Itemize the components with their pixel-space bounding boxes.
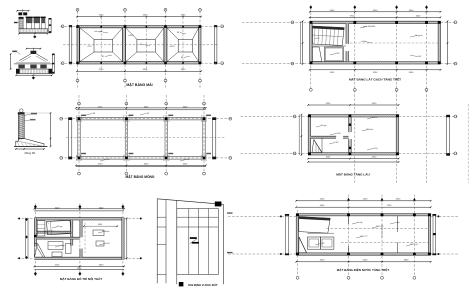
floor plan G interior horizontal wall: [311, 136, 336, 138]
roof plan C hip box 2: [126, 28, 164, 62]
floor plan D small room 1: [312, 47, 321, 62]
floor plan D small room 2: [324, 47, 343, 62]
grid line L4 vertical upper: [199, 11, 201, 88]
floor plan G bottom dimension: [308, 158, 398, 160]
svg-text:+0.00: +0.00: [360, 41, 366, 43]
foundation plan F top dimension: [76, 107, 206, 109]
detail B base slab: [16, 69, 52, 74]
floor plan D centre dashed: [350, 42, 438, 44]
svg-text:MẶT BẰNG ĐIỆN NƯỚC TẦNG TRỆT: MẶT BẰNG ĐIỆN NƯỚC TẦNG TRỆT: [337, 267, 390, 272]
floor plan G columns: [308, 114, 311, 117]
floor plan G left dimension bar: [300, 115, 302, 155]
svg-text:tủ: tủ: [51, 229, 53, 232]
foundation plan F left bar: [69, 119, 72, 158]
svg-text:MẶT BẰNG LÁT GẠCH TẦNG TRỆT: MẶT BẰNG LÁT GẠCH TẦNG TRỆT: [349, 77, 401, 82]
svg-text:M.B ĐỊNH Vị KHU ĐẤT: M.B ĐỊNH Vị KHU ĐẤT: [188, 282, 218, 287]
furniture plan H left dimension chain: [24, 218, 26, 259]
svg-text:đèn: đèn: [396, 221, 399, 224]
detail E hatched wall: [18, 113, 24, 139]
floor plan D right dimension bar: [447, 21, 449, 64]
detail B ridge peak: [31, 51, 37, 54]
services plan J outer wall band: [296, 214, 431, 216]
services plan J stair room: [299, 217, 330, 234]
detail A section mark: [33, 35, 36, 38]
svg-text:P.khách: P.khách: [103, 231, 110, 233]
grid line L2 vertical upper: [124, 11, 126, 88]
services plan J left dimension bar: [285, 214, 287, 255]
foundation plan F footing outlines: [76, 116, 82, 122]
grid line L1 vertical lower: [78, 95, 80, 172]
detail B purlin blocks: [18, 65, 24, 69]
roof plan C top dimension: [77, 16, 201, 18]
floor plan D annotations: [360, 27, 367, 29]
floor plan D corridor line: [312, 45, 346, 47]
floor plan D bottom dimension: [310, 69, 441, 71]
furniture plan H lower furniture: [48, 242, 63, 250]
grid line R5 vertical margin: [467, 104, 469, 183]
roof plan C annotations: [100, 32, 108, 34]
detail A right post: [49, 18, 51, 33]
svg-text:PVC 21: PVC 21: [377, 226, 385, 228]
roof plan C columns: [76, 25, 79, 28]
roof plan C outer wall band: [77, 26, 201, 28]
svg-text:P.khách: P.khách: [367, 129, 374, 131]
svg-text:P.ngủ: P.ngủ: [58, 225, 63, 228]
foundation plan F right bar: [213, 119, 216, 158]
services plan J row dashed lines: [228, 215, 296, 217]
foundation plan F columns: [78, 117, 81, 120]
roof plan C right bar: [214, 26, 217, 65]
grid line L3 vertical upper: [165, 11, 167, 88]
svg-text:Móng M1: Móng M1: [25, 151, 36, 155]
foundation plan F horizontal beams: [76, 117, 206, 119]
services plan J columns: [296, 213, 299, 216]
floor plan D left grid circles: [242, 21, 310, 23]
svg-text:PVC 27: PVC 27: [361, 236, 369, 238]
foundation plan F bottom dimension: [76, 164, 206, 166]
furniture plan H outer wall band: [34, 218, 124, 220]
detail E grid bubble: [20, 109, 24, 113]
grid line L1 vertical upper: [77, 11, 79, 88]
grid line L2 vertical lower: [125, 95, 127, 172]
services plan J bottom dimension: [296, 261, 431, 263]
svg-text:lát gạch: lát gạch: [415, 34, 422, 37]
svg-text:MẶT BẰNG TẦNG LẦU: MẶT BẰNG TẦNG LẦU: [336, 172, 370, 177]
floor plan G interior vertical wall: [349, 117, 352, 132]
svg-text:3600: 3600: [98, 224, 102, 226]
site plan I street labels: [227, 212, 233, 213]
svg-text:MẶT BẰNG MÓNG: MẶT BẰNG MÓNG: [126, 174, 155, 179]
detail E wall leader: [24, 114, 31, 116]
services plan J right dimension bar: [432, 214, 434, 255]
grid line R1 vertical: [310, 8, 312, 90]
svg-text:gạch 400x400: gạch 400x400: [363, 26, 376, 28]
furniture plan H row dashed lines: [18, 218, 35, 220]
svg-text:WC: WC: [321, 243, 325, 245]
floor plan D left dimension bar: [302, 21, 304, 64]
svg-text:+3.40: +3.40: [372, 148, 378, 150]
roof plan C separator walls: [123, 28, 126, 62]
svg-text:i=45%: i=45%: [169, 46, 175, 48]
svg-text:+0.45: +0.45: [315, 38, 320, 40]
floor plan D interior wall: [346, 24, 349, 44]
detail B roof slopes: [19, 54, 30, 61]
foundation plan F row centrelines: [61, 118, 232, 120]
furniture plan H grid lines: [34, 204, 36, 277]
floor plan G top dimension: [308, 104, 398, 106]
svg-text:MẶT BẰNG MÁI: MẶT BẰNG MÁI: [126, 82, 152, 87]
services plan J top dimensions: [296, 200, 431, 202]
detail A bottom dimension: [19, 33, 48, 35]
floor plan D outer wall band: [310, 21, 441, 23]
roof plan C left bar: [69, 26, 72, 65]
floor plan G annotations: [316, 126, 322, 128]
roof plan C row grid circles: [61, 25, 78, 27]
grid line L4 vertical lower: [203, 95, 205, 172]
detail A left leader: [14, 22, 18, 23]
site plan I plot block: [177, 209, 219, 275]
svg-text:P.ngủ: P.ngủ: [322, 124, 327, 127]
furniture plan H bed: [47, 220, 72, 234]
furniture plan H bottom dimension: [34, 265, 124, 267]
site plan I road lines: [165, 200, 167, 284]
site plan I subject plot marks: [190, 237, 197, 239]
grid line R2 vertical: [354, 8, 356, 183]
services plan J partial walls: [397, 216, 399, 232]
services plan J annotations: [352, 223, 358, 225]
roof plan C hip box 3: [167, 28, 199, 62]
furniture plan H inner dimension: [84, 225, 117, 227]
furniture plan H annotations: [52, 227, 58, 229]
svg-text:MẶT BẰNG BỐ TRÍ NỘI THẤT: MẶT BẰNG BỐ TRÍ NỘI THẤT: [60, 276, 102, 281]
svg-text:+3.40: +3.40: [335, 133, 341, 135]
detail E bottom dimension: [16, 148, 44, 150]
svg-text:+0.00: +0.00: [104, 243, 110, 245]
detail B eaves line: [14, 63, 53, 65]
floor plan D stair room: [313, 26, 345, 46]
detail B left leader: [12, 51, 17, 53]
site plan I title: [179, 282, 184, 286]
floor plan D right grid circles: [441, 21, 458, 23]
svg-text:i=45%: i=45%: [128, 35, 134, 37]
detail A base slab: [19, 29, 48, 33]
roof plan C bottom dimension: [77, 70, 201, 72]
detail A top coping: [18, 12, 22, 15]
furniture plan H interior walls: [71, 220, 73, 246]
roof plan C hip box 1: [80, 28, 123, 62]
site plan I left strip rungs: [157, 216, 166, 218]
detail B right post: [52, 54, 54, 74]
detail A left wall: [19, 17, 23, 29]
grid line R4 vertical: [426, 8, 428, 183]
floor plan D columns: [310, 21, 313, 24]
furniture plan H right dimension line: [126, 218, 128, 260]
floor plan G row dashed lines: [241, 115, 309, 117]
services plan J grid lines: [348, 195, 350, 277]
services plan J small rooms: [307, 237, 320, 249]
detail E column cap: [18, 112, 25, 114]
svg-text:sketch: sketch: [372, 116, 378, 119]
floor plan D top dimension: [310, 11, 441, 13]
site plan I corner marker: [215, 202, 222, 207]
services plan J long dashed runs: [326, 228, 428, 230]
foundation plan F column labels: [81, 115, 86, 116]
detail E footing hatch: [17, 142, 20, 147]
grid line R3 vertical: [396, 8, 398, 183]
svg-text:PVC 34: PVC 34: [411, 244, 419, 246]
detail E footing: [16, 139, 44, 147]
svg-text:WC: WC: [336, 53, 340, 55]
foundation plan F vertical beams: [77, 119, 79, 158]
grid line L3 vertical lower: [165, 95, 167, 172]
site plan I boundary: [156, 199, 158, 283]
foundation plan F annotations: [86, 114, 92, 116]
detail B bottom dimension: [16, 74, 52, 76]
furniture plan H top dimension: [34, 208, 124, 210]
furniture plan H wardrobe: [37, 221, 45, 236]
services plan J lower-left wedge: [299, 237, 307, 253]
svg-text:+7.45: +7.45: [87, 46, 92, 48]
detail E right dimension: [50, 113, 52, 146]
svg-text:WC: WC: [335, 142, 339, 144]
svg-text:mái ngói: mái ngói: [94, 31, 102, 33]
furniture plan H stair wedge: [34, 244, 45, 258]
detail A arch blocks: [26, 18, 32, 23]
detail B left dimension: [10, 54, 12, 69]
floor plan G small stair: [312, 140, 322, 153]
detail A arch voids: [27, 23, 32, 29]
furniture plan H right room furniture: [93, 230, 104, 236]
floor plan G outer wall band: [308, 115, 398, 117]
detail B section mark: [32, 76, 35, 79]
roof plan C centre dashed lines: [63, 44, 218, 46]
floor plan G right bar: [447, 116, 450, 155]
detail E base line: [14, 145, 48, 147]
